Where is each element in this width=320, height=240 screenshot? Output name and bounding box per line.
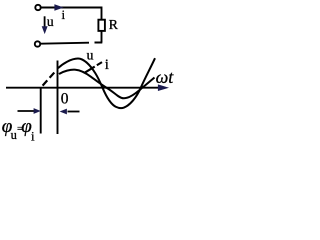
svg-text:i: i xyxy=(105,57,109,73)
svg-text:ωt: ωt xyxy=(156,67,175,87)
svg-text:u: u xyxy=(47,14,54,29)
svg-text:i: i xyxy=(62,7,66,22)
svg-text:0: 0 xyxy=(61,91,69,108)
svg-text:u: u xyxy=(87,49,94,64)
svg-text:R: R xyxy=(109,18,119,33)
svg-text:i: i xyxy=(31,129,35,144)
